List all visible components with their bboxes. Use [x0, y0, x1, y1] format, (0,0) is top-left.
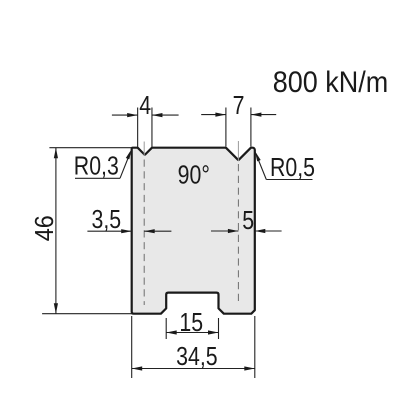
svg-text:5: 5: [242, 206, 254, 236]
dimension 34,5 extension lines: [131, 316, 133, 378]
svg-text:90°: 90°: [178, 160, 210, 190]
centerline of right V-notch (solid part in notch): [237, 141, 239, 161]
dimension 4 line left with arrow: [112, 114, 138, 116]
dimension 34,5 line with arrows: [132, 368, 255, 370]
svg-text:3,5: 3,5: [91, 205, 121, 235]
dimension 7 line left with arrow: [201, 114, 226, 116]
svg-text:34,5: 34,5: [176, 342, 217, 372]
R0,3 leader underline: [75, 177, 120, 179]
svg-text:R0,5: R0,5: [270, 153, 315, 183]
dimension 46 extension line top: [49, 147, 131, 149]
svg-text:7: 7: [233, 91, 245, 121]
dimension 5 line right with arrow at body edge: [255, 230, 282, 232]
dimension 3,5 line right with arrow at centerline: [144, 230, 171, 232]
dimension 15 line with arrows: [166, 332, 218, 334]
R0,5 leader underline: [266, 179, 312, 181]
dimension 46 line with arrows: [55, 148, 57, 314]
centerline of left V-notch (dashed): [143, 160, 145, 306]
svg-text:15: 15: [179, 308, 203, 338]
dimension 7 extension lines: [225, 108, 227, 147]
R0,3 leader diagonal with arrow: [120, 152, 131, 178]
centerline of left V-notch (solid part in notch): [143, 142, 145, 157]
svg-text:R0,3: R0,3: [74, 152, 119, 182]
dimension 3,5 line left with arrow at body edge: [87, 230, 131, 232]
die body (filled profile with two V-notches and bottom groove): [132, 148, 255, 314]
dimension 46 extension line bottom: [42, 313, 132, 315]
centerline of right V-notch (dashed): [237, 164, 239, 305]
svg-text:46: 46: [31, 215, 59, 241]
dimension 5 line left with arrow at centerline: [211, 230, 238, 232]
dimension 7 line right with arrow: [251, 114, 276, 116]
svg-text:800 kN/m: 800 kN/m: [273, 66, 388, 100]
dimension 15 extension lines: [165, 318, 167, 339]
R0,5 leader diagonal with arrow: [256, 154, 266, 180]
dimension 4 extension lines: [137, 108, 139, 148]
svg-text:4: 4: [139, 91, 151, 121]
dimension 4 line right with arrow: [152, 114, 179, 116]
